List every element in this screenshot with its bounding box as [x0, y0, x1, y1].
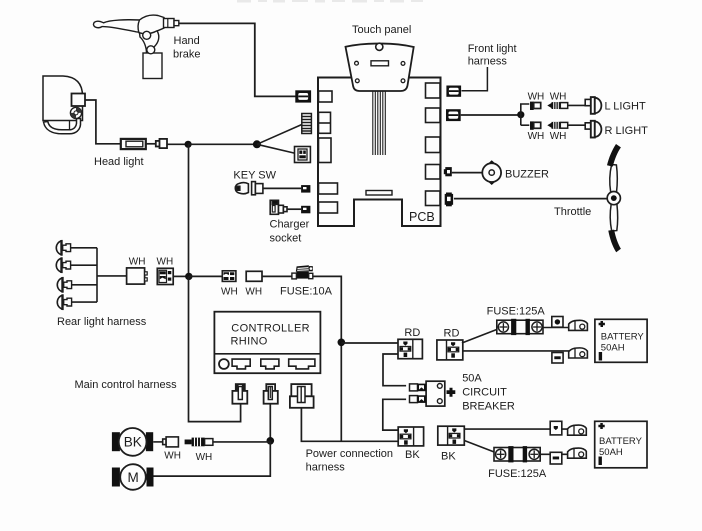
svg-text:RD: RD	[444, 328, 460, 340]
PCB pad L3	[319, 138, 332, 163]
connector A	[296, 91, 311, 102]
PCB pad L4	[319, 183, 338, 194]
wire BK WH2 to node E	[213, 441, 270, 443]
wire node F to RD1	[341, 342, 398, 344]
buzzer	[482, 160, 501, 185]
PCB pad R3	[426, 137, 441, 153]
controller plug 1	[232, 384, 247, 404]
BK brake body	[112, 428, 153, 456]
svg-text:brake: brake	[173, 49, 201, 61]
wire plug2 to node E	[269, 404, 271, 441]
wire connector G to node C	[461, 114, 521, 116]
wire BK2 to battery 2 plus	[464, 428, 569, 430]
svg-text:Charger: Charger	[270, 219, 310, 231]
head light screw	[70, 107, 81, 118]
connector E	[301, 206, 310, 214]
node D junction	[185, 273, 192, 280]
battery 2 plus block	[550, 421, 562, 435]
PCB pad R1	[426, 83, 441, 98]
svg-text:Head light: Head light	[94, 156, 144, 168]
wire connector2 to node A	[167, 143, 188, 145]
rear lamp 1	[56, 240, 70, 256]
svg-text:WH: WH	[164, 451, 181, 462]
fuse10A WH connector 2	[246, 271, 262, 281]
ribbon cable	[373, 91, 386, 155]
rear WH connector 2	[157, 268, 173, 284]
wire node B to connector C	[257, 144, 296, 153]
touch panel slot	[371, 61, 389, 66]
rear lamp 4	[57, 294, 71, 310]
wire node A to node B	[188, 143, 257, 145]
controller pilot circle	[219, 359, 229, 369]
svg-text:FUSE:125A: FUSE:125A	[487, 306, 546, 318]
svg-text:WH: WH	[550, 131, 567, 142]
wire breaker bottom to BK1	[383, 399, 406, 430]
svg-text:Throttle: Throttle	[554, 206, 591, 218]
battery 1 minus block	[552, 353, 563, 364]
svg-text:BK: BK	[405, 449, 420, 461]
battery 1 plus lug	[569, 320, 588, 330]
rear light bus wires	[71, 248, 127, 302]
svg-text:FUSE:125A: FUSE:125A	[488, 468, 547, 480]
wire RD2 to battery 1 minus	[463, 350, 570, 352]
R light WH plug 2	[547, 122, 567, 129]
wire to buzzer	[452, 172, 483, 174]
controller plug 2	[264, 384, 278, 404]
svg-text:Touch panel: Touch panel	[352, 24, 411, 36]
rear lamp 3	[57, 277, 71, 293]
connector C	[295, 147, 311, 163]
PCB slot	[366, 191, 392, 196]
svg-text:Front light: Front light	[468, 43, 517, 55]
svg-text:RHINO: RHINO	[231, 336, 268, 348]
battery 1 plus mark	[599, 321, 605, 327]
connector F	[446, 86, 461, 97]
controller socket 2	[261, 359, 279, 369]
battery 2 box	[595, 421, 647, 468]
rear WH connector 1	[127, 268, 148, 284]
connector H buzzer	[444, 167, 452, 176]
battery 1 minus mark	[599, 352, 602, 361]
PCB pad L1	[319, 91, 333, 102]
BK WH plug 1	[163, 437, 179, 447]
svg-text:WH: WH	[528, 131, 545, 142]
wire RD1 to breaker top	[383, 354, 406, 386]
wire node B to connector B	[257, 125, 302, 145]
wire hand brake to connector A	[179, 23, 296, 96]
svg-text:KEY SW: KEY SW	[233, 170, 276, 182]
battery 2 plus lug	[568, 425, 587, 435]
svg-text:BK: BK	[441, 451, 456, 463]
svg-text:50AH: 50AH	[599, 447, 623, 458]
wire rear WH2 to node D	[173, 275, 189, 277]
svg-text:harness: harness	[306, 462, 346, 474]
controller divider	[214, 353, 320, 355]
battery 1 plus block	[552, 317, 563, 328]
connector D	[301, 185, 310, 193]
svg-text:WH: WH	[221, 287, 238, 298]
svg-text:50AH: 50AH	[601, 343, 625, 354]
fuse 125A bottom	[494, 446, 540, 462]
node A junction	[185, 141, 192, 148]
key switch symbol	[235, 182, 263, 195]
wire charger socket to connector E	[287, 208, 301, 210]
L light WH plug 1	[530, 102, 541, 110]
svg-text:PCB: PCB	[409, 210, 435, 224]
svg-text:R LIGHT: R LIGHT	[605, 125, 649, 137]
svg-text:WH: WH	[157, 256, 174, 267]
svg-text:L LIGHT: L LIGHT	[605, 101, 646, 113]
circuit breaker	[410, 381, 456, 406]
PCB pad R2	[426, 108, 441, 123]
wire RD2 to fuse 125A top	[462, 329, 498, 343]
PCB pad R5	[426, 191, 441, 206]
PCB outline	[318, 78, 441, 227]
svg-text:BATTERY: BATTERY	[599, 436, 643, 447]
svg-text:WH: WH	[528, 91, 545, 102]
svg-text:BK: BK	[124, 435, 142, 450]
svg-text:Power connection: Power connection	[306, 448, 393, 460]
BK connector 1	[398, 427, 423, 446]
cropped header text fragment	[237, 0, 423, 3]
throttle lever	[607, 144, 621, 252]
svg-text:WH: WH	[129, 256, 146, 267]
wire node E down to motor line	[154, 441, 271, 476]
touch panel body	[346, 44, 414, 91]
BK WH plug 2	[185, 438, 213, 447]
head light connector 1	[121, 139, 146, 149]
svg-text:Rear light harness: Rear light harness	[57, 316, 147, 328]
R lamp	[585, 121, 601, 138]
wire to R lamp	[568, 124, 586, 126]
head light connector 2	[156, 139, 167, 148]
svg-text:Main control harness: Main control harness	[75, 379, 178, 391]
controller plug 3	[290, 384, 314, 408]
connector B ribbed	[302, 114, 312, 134]
svg-text:WH: WH	[245, 287, 262, 298]
svg-text:RD: RD	[404, 327, 420, 339]
head light connector box	[72, 94, 86, 107]
fuse10A WH connector 1	[222, 271, 236, 282]
fuse 10A symbol	[292, 265, 313, 279]
wire node C branch stems	[521, 104, 530, 125]
battery 2 minus mark	[599, 457, 602, 466]
wire fuse10A to line B	[313, 276, 341, 441]
RD connector 2	[437, 340, 463, 360]
svg-text:CONTROLLER: CONTROLLER	[231, 323, 310, 335]
node C junction	[517, 111, 524, 118]
head light housing	[43, 76, 83, 134]
touch panel top hole	[376, 43, 383, 50]
wire BK to WH plug	[153, 441, 163, 443]
svg-text:Hand: Hand	[174, 35, 200, 47]
charger socket symbol	[270, 200, 287, 214]
touch panel screw holes	[355, 61, 405, 82]
battery 2 minus lug	[568, 448, 587, 458]
node E junction	[267, 437, 275, 445]
wire	[146, 143, 156, 145]
battery 2 minus block	[550, 452, 562, 464]
wire plug3 to BK connector 1	[301, 408, 398, 442]
node B junction	[253, 140, 261, 148]
node F junction on line B	[338, 339, 346, 347]
svg-text:socket: socket	[270, 233, 302, 245]
motor M body	[112, 464, 154, 490]
wire	[262, 275, 292, 277]
controller socket 3	[289, 359, 315, 369]
svg-text:CIRCUIT: CIRCUIT	[462, 387, 507, 399]
hand brake lever	[93, 15, 178, 78]
rear lamp 2	[56, 257, 70, 273]
wire head light to connector	[85, 100, 121, 144]
svg-text:BUZZER: BUZZER	[505, 169, 549, 181]
BK connector 2	[438, 426, 465, 445]
main vertical wire from node A down	[188, 144, 190, 276]
RD connector 1	[398, 339, 422, 358]
wire to L lamp	[568, 104, 586, 106]
main vertical wire node D to controller plug 1	[189, 276, 241, 421]
svg-text:WH: WH	[550, 91, 567, 102]
L lamp	[585, 97, 601, 114]
PCB pad R4	[426, 165, 441, 180]
svg-text:50A: 50A	[462, 373, 482, 385]
svg-text:FUSE:10A: FUSE:10A	[280, 286, 333, 298]
controller socket 1	[232, 359, 250, 369]
battery 1 minus lug	[569, 348, 588, 358]
R light WH plug 1	[530, 121, 541, 129]
L light WH plug 2	[547, 102, 567, 109]
battery 2 plus mark	[598, 423, 604, 429]
svg-text:WH: WH	[196, 452, 213, 463]
leader line front light harness	[462, 67, 488, 91]
svg-text:BREAKER: BREAKER	[462, 401, 515, 413]
wire fuse to battery 1 plus	[543, 327, 570, 329]
controller box	[214, 312, 320, 374]
wire node D to fuse 10A	[189, 275, 223, 277]
wire to throttle	[454, 198, 608, 200]
svg-text:M: M	[128, 470, 139, 485]
connector G	[446, 109, 461, 121]
wire BK2 to fuse 125A bottom	[464, 441, 495, 453]
svg-text:BATTERY: BATTERY	[601, 332, 645, 343]
wire fuse to battery 2 minus	[540, 453, 568, 455]
connector I throttle	[445, 193, 453, 207]
svg-text:harness: harness	[468, 56, 508, 68]
wire key switch to connector D	[263, 187, 301, 189]
fuse 125A top	[497, 319, 543, 335]
PCB pad L5	[319, 202, 338, 213]
PCB pad L2	[319, 112, 331, 133]
battery 1 box	[595, 319, 647, 362]
